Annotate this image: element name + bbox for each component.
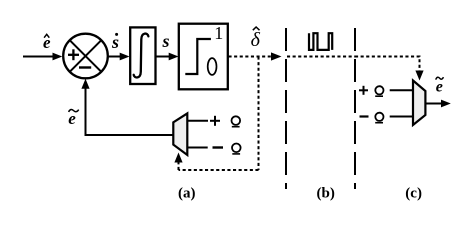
plus sign section c (359, 86, 368, 95)
label delta-hat (251, 27, 261, 51)
pulse train symbol (309, 33, 332, 50)
svg-text:(b): (b) (317, 185, 335, 201)
relay label 1 (214, 23, 223, 43)
terminal Q plus section c (375, 86, 383, 96)
label (b) (317, 185, 335, 201)
wire output e-tilde (425, 100, 450, 108)
wire feedback e-tilde to summing junction (81, 79, 173, 135)
label e-hat (43, 33, 51, 52)
dashed feedback rail bottom (179, 169, 259, 171)
terminal Q minus section a (232, 144, 241, 154)
dashed select wire into mux A1 with up arrow (174, 153, 182, 171)
svg-text:(c): (c) (405, 185, 422, 201)
relay block (179, 24, 228, 90)
mux A1 (173, 113, 187, 155)
summing junction S1 (63, 34, 108, 79)
wire input e-hat (23, 53, 62, 61)
label s-dot (111, 32, 119, 52)
dashed wire section c to mux A2 select (355, 57, 424, 81)
svg-text:e: e (436, 79, 443, 96)
svg-text:δ: δ (251, 29, 261, 51)
plus sign section a (210, 116, 220, 126)
relay step symbol (185, 39, 211, 74)
minus sign section a (213, 146, 224, 148)
label e-tilde feedback (68, 109, 78, 128)
label s (162, 31, 170, 51)
minus sign in summing junction (79, 66, 91, 68)
label (c) (405, 185, 422, 201)
integrator block (130, 27, 155, 84)
plus sign in summing junction (68, 49, 79, 60)
terminal Q minus section c (375, 113, 383, 123)
svg-text:s: s (162, 31, 170, 51)
terminal Q plus section a (232, 116, 241, 126)
wire mux A1 minus input (187, 147, 207, 149)
label (a) (178, 185, 196, 201)
dashed branch node down from delta-hat wire (258, 57, 260, 171)
svg-text:(a): (a) (178, 185, 196, 201)
relay label 0 (208, 58, 217, 75)
wire minus terminal to mux A2 (390, 116, 413, 118)
mux A2 (413, 81, 425, 126)
wire plus terminal to mux A2 (390, 89, 413, 91)
dashed wire relay output delta-hat (229, 52, 282, 60)
label e-tilde output (436, 77, 444, 95)
wire sum to integrator (108, 53, 130, 61)
wire mux A1 plus input (187, 120, 208, 122)
separator line b left (285, 28, 287, 189)
minus sign section c (360, 115, 369, 117)
wire integrator to relay (156, 53, 179, 61)
dashed wire through section b (287, 56, 355, 58)
separator line b right (354, 28, 356, 189)
svg-text:1: 1 (214, 23, 223, 43)
